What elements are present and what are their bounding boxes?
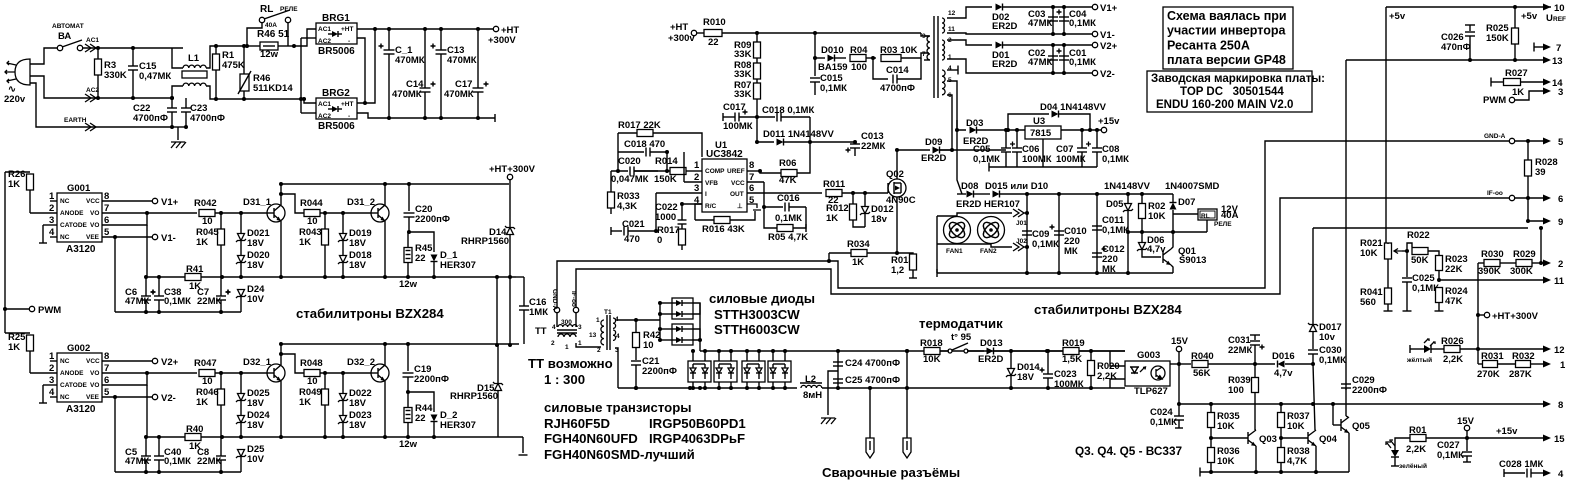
svg-text:RHRP1560: RHRP1560: [450, 391, 498, 402]
op-amp U1 UC3842 box: [702, 159, 747, 212]
svg-text:10K: 10K: [1148, 211, 1166, 222]
wire R038 bot: [1280, 463, 1282, 472]
wire R028 bot: [1527, 176, 1529, 198]
capacitor C030: [1308, 349, 1318, 351]
pin 8: [1543, 401, 1551, 408]
terminal IF mid: [573, 307, 578, 312]
svg-text:2200пФ: 2200пФ: [415, 214, 450, 225]
diode D_1 HER307: [431, 255, 438, 262]
wire D14 col top: [509, 180, 511, 228]
wire pin9 long line: [1313, 227, 1528, 229]
wire cap bank C13 lower: [440, 54, 442, 118]
wire chain 3: [756, 99, 758, 117]
junction packs out: [698, 338, 702, 342]
capacitor C14: [420, 87, 431, 89]
capacitor C03: [1048, 16, 1058, 18]
resistor R017-0: [679, 229, 686, 245]
wire C018 row b: [650, 152, 667, 171]
wire drv gnd bus: [115, 471, 241, 473]
connector J02: [1013, 243, 1024, 251]
svg-text:2,2K: 2,2K: [1097, 371, 1117, 382]
resistor R26: [27, 174, 34, 190]
junction R034 gnda: [827, 259, 831, 263]
junction R010 line: [755, 31, 759, 35]
svg-text:R047: R047: [194, 358, 217, 369]
wire R042 out: [215, 212, 268, 214]
svg-text:D03: D03: [966, 118, 983, 129]
svg-text:1K: 1K: [826, 213, 838, 224]
wire R023 bot: [1438, 271, 1440, 280]
wire pin6 col: [146, 385, 148, 437]
svg-text:VО: VО: [90, 222, 99, 229]
wire R25 bottom: [29, 351, 31, 373]
wire out bus bottom left: [618, 387, 797, 389]
diode D013 ER2D: [987, 348, 994, 355]
LED yellow: [1424, 345, 1431, 353]
wire R26 top link: [5, 171, 30, 173]
junction C026: [1468, 58, 1472, 62]
resistor R3: [95, 59, 102, 75]
wire R46 bottom: [243, 91, 245, 99]
svg-text:V1-: V1-: [161, 233, 176, 244]
junction drv1 top rail: [279, 182, 283, 186]
wire D01 out: [1003, 44, 1092, 46]
wire BRG1 minus: [357, 38, 365, 103]
junction R037 base: [1279, 436, 1283, 440]
svg-text:12w: 12w: [399, 279, 418, 290]
junction 497 277: [495, 275, 499, 279]
svg-text:NC: NC: [60, 198, 70, 205]
wire R010 to transformer: [722, 32, 921, 34]
svg-text:VEE: VEE: [86, 234, 100, 241]
svg-text:R018: R018: [920, 338, 943, 349]
resistor R02: [1139, 204, 1146, 219]
wire chain 2: [756, 79, 758, 84]
wire R025 bot: [1514, 44, 1516, 60]
wire switch out: [967, 350, 984, 352]
junction drv2 top rail: [279, 342, 283, 346]
wire G003 out drop: [1178, 364, 1180, 404]
wire drv1 bus ext: [420, 276, 516, 278]
wire cap bank C17 upper: [477, 29, 479, 88]
svg-text:22МК: 22МК: [197, 296, 221, 307]
svg-text:6: 6: [1558, 194, 1563, 205]
wire module 1 pin bot 1: [730, 382, 732, 388]
power diode pack 2 STTH: [672, 324, 693, 345]
capacitor C24: [833, 361, 843, 363]
wire C21 bot: [635, 365, 637, 388]
wire if to pin6: [1515, 197, 1546, 199]
wire module 1 pin bot 0: [718, 382, 720, 388]
pin 9: [1543, 218, 1551, 225]
wire chain top: [756, 33, 758, 43]
wire pack feed: [659, 303, 661, 340]
capacitor C022: [678, 219, 687, 221]
ground output filter: [821, 418, 836, 424]
wire C016 r: [789, 206, 806, 208]
wire pack 2 in bot: [660, 339, 672, 341]
resistor R035: [1208, 413, 1215, 428]
transformer T1 left winding: [601, 320, 604, 345]
wire C7 t: [220, 277, 222, 296]
wire cap bank C13 upper: [440, 29, 442, 50]
wire R42 top: [635, 320, 637, 332]
svg-text:TOP DC 30501544: TOP DC 30501544: [1180, 86, 1284, 98]
wire fan top rail: [936, 216, 938, 244]
terminal V2+: [1092, 42, 1097, 47]
junction R044 out: [323, 211, 327, 215]
diode D04: [1052, 111, 1059, 118]
power diode pack 1 STTH: [672, 298, 693, 319]
wire C013 stub: [854, 148, 856, 156]
svg-text:18V: 18V: [247, 420, 265, 431]
zener D017 10v: [1310, 325, 1317, 332]
svg-text:STTH6003CW: STTH6003CW: [714, 322, 800, 337]
pin 2: [1543, 260, 1551, 267]
wire drv gnd bus: [115, 311, 241, 313]
junction weld2 cross: [905, 386, 909, 390]
wire C024 top: [1178, 404, 1180, 416]
welding connector -: [866, 438, 874, 458]
wire D02 out: [1003, 6, 1092, 8]
wire drv1 top rail: [281, 183, 509, 185]
svg-text:AC2: AC2: [318, 38, 331, 45]
diode D08 ER2D: [967, 191, 974, 198]
capacitor C25: [833, 378, 843, 380]
svg-text:V2-: V2-: [161, 393, 176, 404]
svg-text:V1+: V1+: [161, 197, 179, 208]
junction R011 out: [851, 191, 855, 195]
wire R043 bot: [324, 245, 326, 277]
svg-text:1K: 1K: [299, 397, 311, 408]
wire relay left: [247, 23, 262, 46]
wire R033 drop: [610, 171, 612, 192]
wire C020 r: [634, 170, 658, 172]
junction D14 bus: [508, 275, 512, 279]
svg-text:А3120: А3120: [66, 244, 96, 255]
junction C016 row: [762, 205, 766, 209]
wire module 3 pin bot 1: [784, 382, 786, 388]
LED green: [1391, 450, 1399, 457]
svg-text:ER2D: ER2D: [921, 153, 946, 164]
svg-text:RHRP1560: RHRP1560: [461, 236, 509, 247]
transformer T2 primary winding: [927, 36, 930, 60]
wire R016 r: [730, 211, 755, 220]
wire plug earth: [30, 83, 173, 127]
wire Q01 collector: [1171, 232, 1173, 249]
terminal +HT right: [1484, 312, 1489, 317]
svg-text:150K: 150K: [654, 174, 677, 185]
wire R036 bot: [1210, 463, 1212, 472]
terminal V1+: [152, 198, 157, 203]
svg-text:VFB: VFB: [705, 180, 718, 187]
zener D06 4,7v: [1139, 243, 1146, 250]
wire D014 top: [1010, 351, 1012, 368]
wire C8 t: [220, 437, 222, 456]
capacitor C6: [141, 295, 151, 297]
transistor Q04: [1307, 432, 1309, 444]
wire R012 top: [852, 193, 854, 204]
svg-text:100МК: 100МК: [1022, 154, 1052, 165]
wire C026 bot: [1469, 36, 1471, 60]
wire R046 top: [220, 373, 222, 389]
wire module 0 pin top 0: [692, 351, 694, 361]
pin 1: [1543, 361, 1551, 368]
bridge rectifier BRG2: [316, 98, 357, 119]
tick C021: [610, 227, 612, 235]
junction if: [1526, 196, 1530, 200]
wire C20 bot: [408, 217, 410, 232]
junction Q05 base pin8: [1331, 402, 1335, 406]
wire R030-R029: [1500, 262, 1516, 264]
wire C5 t: [145, 437, 147, 456]
resistor R03: [881, 55, 901, 62]
junction G003 out: [1177, 362, 1181, 366]
svg-text:470МК: 470МК: [447, 55, 477, 66]
resistor R037: [1278, 413, 1285, 428]
svg-text:1K: 1K: [299, 237, 311, 248]
terminal V2-: [152, 394, 157, 399]
svg-text:0,47МК: 0,47МК: [139, 71, 171, 82]
wire C19 top: [407, 344, 409, 371]
junction R035 base: [1209, 436, 1213, 440]
svg-text:C028 1МК: C028 1МК: [1499, 459, 1544, 470]
wire pin5 down: [947, 81, 957, 120]
svg-text:I: I: [705, 191, 707, 198]
wire switch gap: [940, 350, 949, 352]
wire G002 pin6 vo: [102, 373, 147, 385]
svg-text:-: -: [348, 113, 350, 120]
wire wiper: [1402, 250, 1407, 252]
resistor R030: [1484, 260, 1500, 267]
svg-text:RL: RL: [1201, 213, 1210, 220]
svg-text:R022: R022: [1407, 230, 1430, 241]
svg-text:R040: R040: [1191, 351, 1214, 362]
svg-text:G003: G003: [1137, 350, 1160, 361]
resistor R25: [27, 335, 34, 351]
transformer T1 core: [606, 315, 608, 350]
diode D03 ER2D: [970, 127, 977, 134]
svg-text:4,7K: 4,7K: [1287, 456, 1307, 467]
svg-text:BRG2: BRG2: [322, 88, 350, 99]
wire C24 col: [837, 351, 839, 388]
svg-text:2: 2: [1558, 259, 1563, 270]
svg-text:18V: 18V: [247, 238, 265, 249]
wire module 2 pin top 1: [758, 351, 760, 361]
svg-text:2: 2: [597, 347, 601, 354]
junction module 2 1: [757, 349, 761, 353]
wire D025-D024: [240, 401, 242, 415]
wire C38 b: [158, 300, 160, 312]
junction D08 row: [1025, 192, 1029, 196]
svg-text:D015 или D10: D015 или D10: [985, 181, 1048, 192]
svg-text:R034: R034: [847, 239, 870, 250]
svg-text:FAN2: FAN2: [980, 248, 997, 255]
svg-text:4,7v: 4,7v: [1274, 368, 1293, 379]
wire G001 pin8 vcc: [102, 200, 152, 202]
wire pwm left column: [4, 172, 6, 333]
wire Q03 emitter: [1255, 446, 1257, 472]
svg-text:300: 300: [561, 319, 572, 326]
wire cap bank C_1 upper: [388, 29, 390, 50]
wire C011 col: [1096, 194, 1098, 273]
wire C015 drop: [814, 58, 816, 76]
svg-text:0,1МК: 0,1МК: [820, 83, 847, 94]
svg-text:IRGP50B60PD1: IRGP50B60PD1: [649, 416, 746, 431]
svg-text:10K: 10K: [923, 354, 941, 365]
wire Q03 base: [1211, 437, 1248, 439]
wire R021 top: [1387, 243, 1389, 244]
wire R048 in: [281, 354, 304, 373]
junction C22 C23: [170, 96, 174, 100]
svg-text:18v: 18v: [871, 214, 888, 225]
wire U3 out: [1061, 129, 1104, 131]
wire C017 r: [739, 116, 757, 118]
wire led green feed: [1395, 438, 1410, 450]
svg-text:R048: R048: [300, 358, 323, 369]
svg-text:0,1МК: 0,1МК: [1437, 450, 1464, 461]
wire drv bus a: [146, 436, 185, 438]
wire D017-C030: [1312, 332, 1314, 349]
terminal GND-A right: [1509, 138, 1514, 143]
junction 15v right: [1465, 436, 1469, 440]
wire C028 r: [1531, 472, 1546, 474]
resistor R046: [218, 389, 225, 405]
junction module 1 0: [717, 349, 721, 353]
wire Q02 drain: [896, 150, 898, 179]
junction module 0 0: [691, 349, 695, 353]
svg-text:TLP627: TLP627: [1134, 386, 1168, 397]
connector chevron AC1: [85, 44, 96, 52]
wire D15 col bot: [497, 391, 499, 437]
junction snubber2: [406, 435, 410, 439]
end of bus: [494, 114, 496, 122]
welding connector +: [903, 438, 911, 458]
svg-text:40А: 40А: [1221, 210, 1239, 221]
svg-text:участии инвертора: участии инвертора: [1167, 24, 1286, 38]
wire C40: [158, 437, 160, 456]
capacitor C018-470: [645, 148, 647, 157]
svg-text:15V: 15V: [1457, 416, 1475, 427]
wire R049 top: [324, 373, 326, 389]
svg-text:470МК: 470МК: [392, 89, 422, 100]
tick C017: [722, 113, 724, 121]
junction R044 tap: [279, 192, 283, 196]
wire cap bank C_1 lower: [388, 54, 390, 118]
junction drv bus: [144, 275, 148, 279]
wire bus corner: [496, 277, 498, 345]
wire U1 pin3: [656, 192, 702, 194]
wire relay right: [287, 23, 289, 46]
junction V2 caps: [1051, 43, 1055, 47]
wire G002 pin2: [30, 372, 57, 374]
wire drv2 bus ext: [420, 436, 523, 438]
wire C023 bot: [1047, 378, 1049, 388]
wire C01 v: [1063, 45, 1065, 73]
junction 365 103: [363, 101, 367, 105]
junction vfb: [665, 150, 669, 154]
wire R06 r: [797, 142, 810, 173]
wire R027 r: [1521, 81, 1546, 83]
inductor L1 bottom: [183, 83, 206, 86]
svg-text:47K: 47K: [1445, 296, 1463, 307]
wire R034 l: [829, 252, 851, 254]
svg-text:D011 1N4148VV: D011 1N4148VV: [763, 129, 834, 140]
wire R020 top: [1090, 351, 1092, 360]
junction mid row: [1126, 230, 1130, 234]
capacitor C06: [1012, 147, 1022, 149]
diode D09 ER2D: [933, 147, 940, 154]
wire AC2 to L1: [87, 97, 172, 99]
terminal V1+: [1092, 4, 1097, 9]
wire U1 pin7: [747, 181, 764, 183]
wire D09 row r: [940, 149, 952, 151]
wire D016 out: [1285, 363, 1313, 365]
wire BRG2 minus: [357, 113, 495, 118]
transformer TT primary: [558, 334, 576, 337]
terminal V2+: [152, 358, 157, 363]
junction R034 Q02: [895, 251, 899, 255]
wire R46 top: [243, 46, 245, 74]
wire D06 bot: [1142, 250, 1161, 257]
capacitor C09: [1022, 230, 1032, 232]
svg-text:10: 10: [1554, 3, 1565, 14]
svg-text:0,1МК: 0,1МК: [1102, 225, 1129, 236]
capacitor C17: [473, 87, 484, 89]
capacitor C04: [1059, 16, 1069, 18]
wire drv2 top rail: [281, 343, 519, 345]
fan FAN2: [978, 217, 1005, 244]
junction vo G001: [145, 211, 149, 215]
zener D021 18V: [238, 234, 245, 241]
junction HT right: [1476, 313, 1480, 317]
junction C08: [1095, 128, 1099, 132]
wire to primary pin9: [921, 33, 929, 36]
svg-text:0,1МК: 0,1МК: [1150, 417, 1177, 428]
svg-text:0,1МК: 0,1МК: [1102, 154, 1129, 165]
wire C016 l: [764, 206, 783, 208]
svg-text:+5v: +5v: [1521, 11, 1538, 22]
connector chevron EARTH: [85, 123, 96, 131]
svg-text:AC1: AC1: [318, 101, 331, 108]
diode inside BRG2: [332, 106, 338, 112]
wire C6 t: [145, 277, 147, 296]
svg-text:4700пФ: 4700пФ: [880, 83, 915, 94]
svg-text:L1: L1: [188, 53, 200, 64]
wire chain 1: [756, 58, 758, 64]
wire R046 bot: [220, 405, 222, 437]
svg-text:39: 39: [1535, 167, 1546, 178]
tick pin4: [957, 66, 959, 75]
wire D013 out: [994, 350, 1125, 352]
wire R039 top: [1254, 364, 1256, 377]
svg-text:C018 0,1МК: C018 0,1МК: [762, 105, 814, 116]
svg-text:330K: 330K: [104, 70, 127, 81]
svg-text:22: 22: [415, 413, 426, 424]
wire R045 top: [220, 213, 222, 229]
svg-text:3: 3: [1558, 87, 1563, 98]
svg-text:VCC: VCC: [86, 358, 100, 365]
wire drv2 bus gnd: [522, 437, 524, 453]
resistor R010: [704, 30, 722, 37]
wire D010 drop: [814, 33, 816, 58]
svg-text:АВТОМАТ: АВТОМАТ: [52, 23, 84, 30]
resistor R06 box: [781, 170, 797, 177]
svg-text:0,1МК: 0,1МК: [164, 296, 191, 307]
pin 11: [1543, 277, 1551, 284]
capacitor C08: [1092, 147, 1102, 149]
wire G001 pin1: [50, 200, 57, 202]
